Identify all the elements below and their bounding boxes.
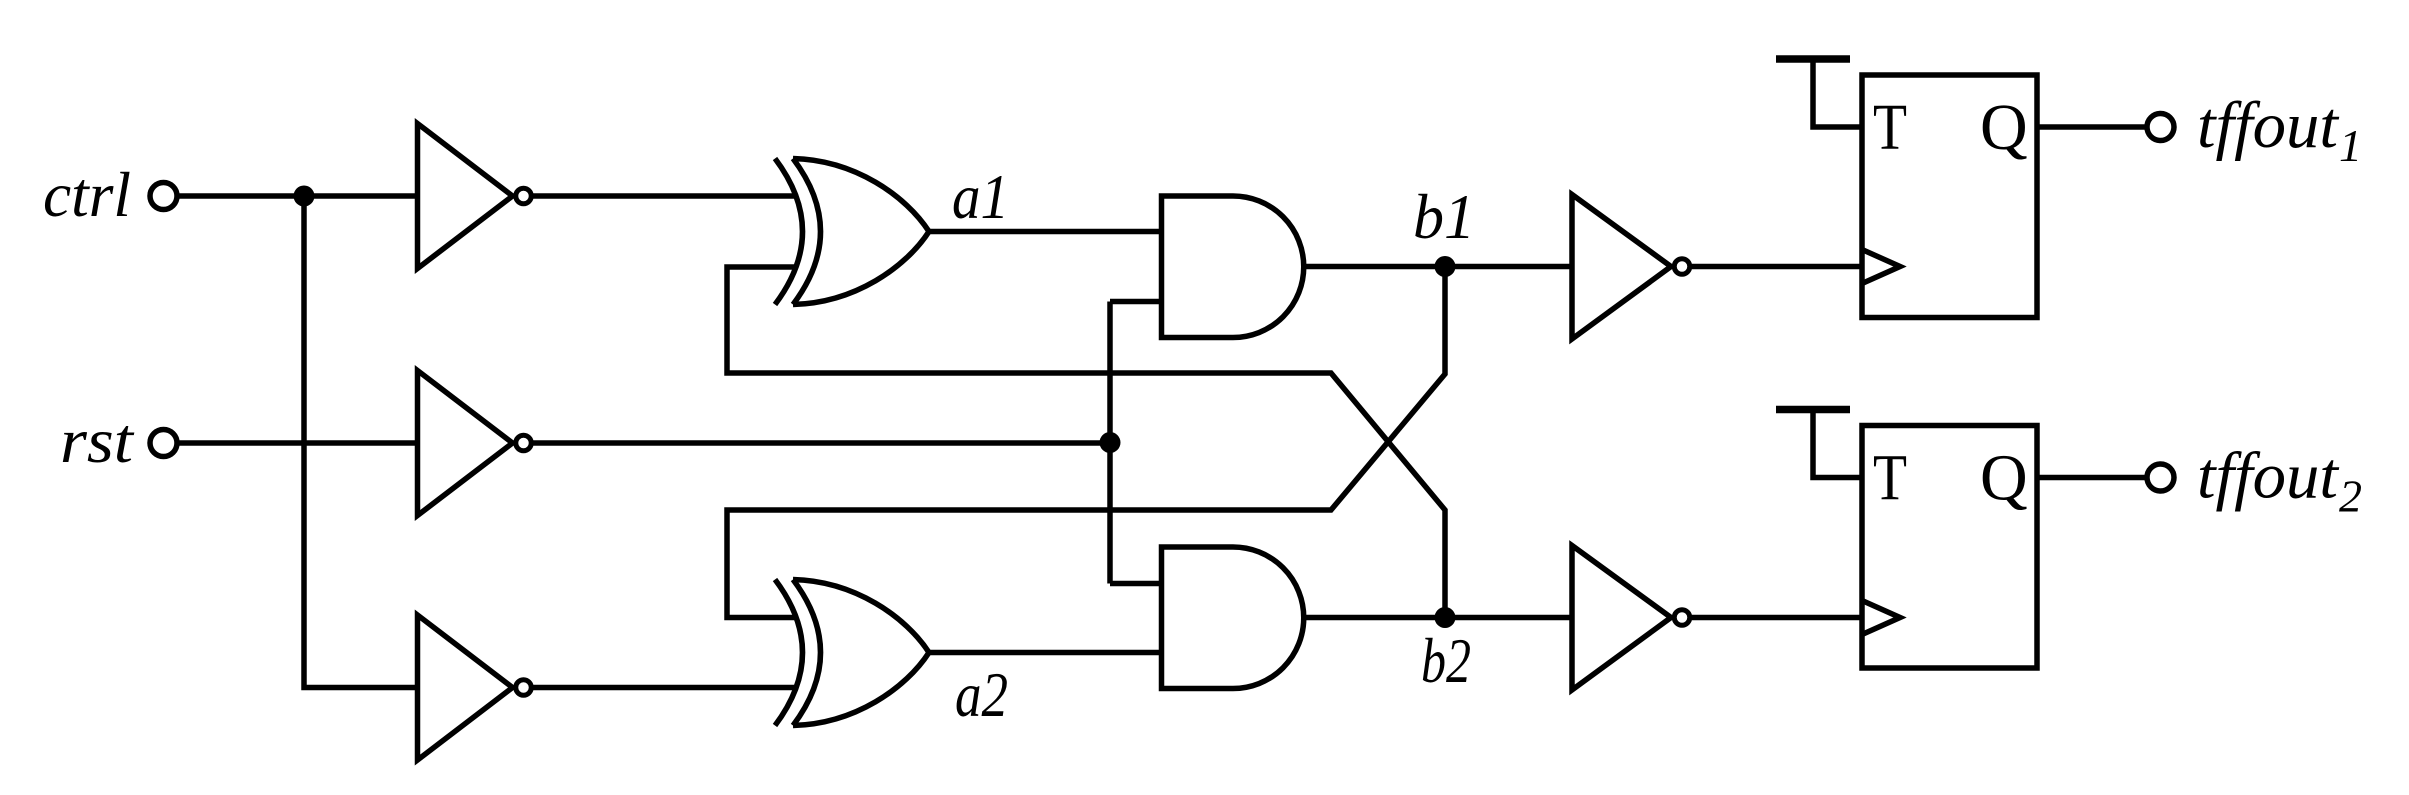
node b2 junction (1435, 607, 1456, 628)
node b1 junction (1435, 256, 1456, 277)
inverter INV2 (rst) (418, 371, 513, 516)
svg-text:a2: a2 (955, 659, 1008, 730)
wire INV4 output to FF1 clock (1692, 264, 1863, 270)
FF1 clock edge triangle (1862, 250, 1900, 284)
wire INV2 output (533, 440, 1111, 446)
inverter INV5 (b2 to FF2 clock) (1572, 546, 1671, 691)
inverter INV4 (b1 to FF1 clock) (1572, 195, 1671, 340)
svg-text:Q: Q (1980, 442, 2028, 515)
wire ctrl to inverter INV1 (178, 193, 418, 199)
wire node a2: X2 output to AND A2 (929, 650, 1161, 656)
wire node b1: A1 output to INV4 (1304, 264, 1573, 270)
wire rstn vertical to both AND gates (1107, 302, 1113, 584)
svg-text:T: T (1873, 91, 1907, 164)
and gate A1 (1162, 196, 1304, 338)
flip-flop FF2 box (1862, 426, 2037, 669)
node junction on ctrl wire (294, 186, 315, 207)
svg-text:a1: a1 (952, 161, 1009, 232)
node junction rstn (1100, 432, 1121, 453)
svg-text:b1: b1 (1413, 181, 1475, 252)
wire INV3 output to XOR X2 (533, 685, 798, 691)
svg-text:2: 2 (2339, 471, 2362, 522)
wire rst to inverter INV2 (178, 440, 418, 446)
FF2 constant-1 bar (1776, 406, 1850, 414)
bubble INV3 (516, 680, 532, 696)
svg-text:rst: rst (60, 405, 135, 476)
input terminal ctrl (150, 183, 177, 210)
svg-text:T: T (1873, 442, 1907, 515)
wire node a1: X1 output to AND A1 (929, 229, 1161, 235)
bubble INV2 (516, 435, 532, 451)
input terminal rst (150, 430, 177, 457)
wire constant-1 to FF1 T input (1813, 59, 1862, 127)
flip-flop FF1 box (1862, 75, 2037, 318)
wire rstn stub to AND A1 (1110, 299, 1161, 305)
and gate A2 (1162, 547, 1304, 689)
svg-text:b2: b2 (1421, 625, 1471, 696)
FF1 constant-1 bar (1776, 55, 1850, 63)
xor gate X2 (775, 580, 929, 726)
svg-text:Q: Q (1980, 91, 2028, 164)
wire X1 lower input feedback from b2 (727, 267, 1445, 618)
wire FF1 Q output (2037, 124, 2146, 130)
wire node b2: A2 output to INV5 (1304, 615, 1573, 621)
wire INV5 output to FF2 clock (1692, 615, 1863, 621)
svg-text:ctrl: ctrl (43, 159, 131, 230)
bubble INV5 (1674, 610, 1690, 626)
inverter INV3 (ctrl lower) (418, 615, 513, 760)
bubble INV1 (516, 188, 532, 204)
svg-text:tffout: tffout (2197, 89, 2340, 162)
xor gate X1 (775, 159, 929, 305)
inverter INV1 (ctrl) (418, 124, 513, 269)
wire constant-1 to FF2 T input (1813, 410, 1862, 478)
output terminal tffout1 (2147, 114, 2174, 141)
svg-text:1: 1 (2339, 120, 2362, 171)
wire INV1 output to XOR X1 (533, 193, 798, 199)
FF2 clock edge triangle (1862, 601, 1900, 635)
output terminal tffout2 (2147, 464, 2174, 491)
wire b1 cross feedback to XOR X2 (727, 267, 1445, 618)
wire FF2 Q output (2037, 475, 2146, 481)
wire rstn stub to AND A2 (1110, 581, 1161, 587)
svg-text:tffout: tffout (2197, 440, 2340, 513)
wire ctrl branch down to INV3 (304, 196, 418, 688)
bubble INV4 (1674, 259, 1690, 275)
